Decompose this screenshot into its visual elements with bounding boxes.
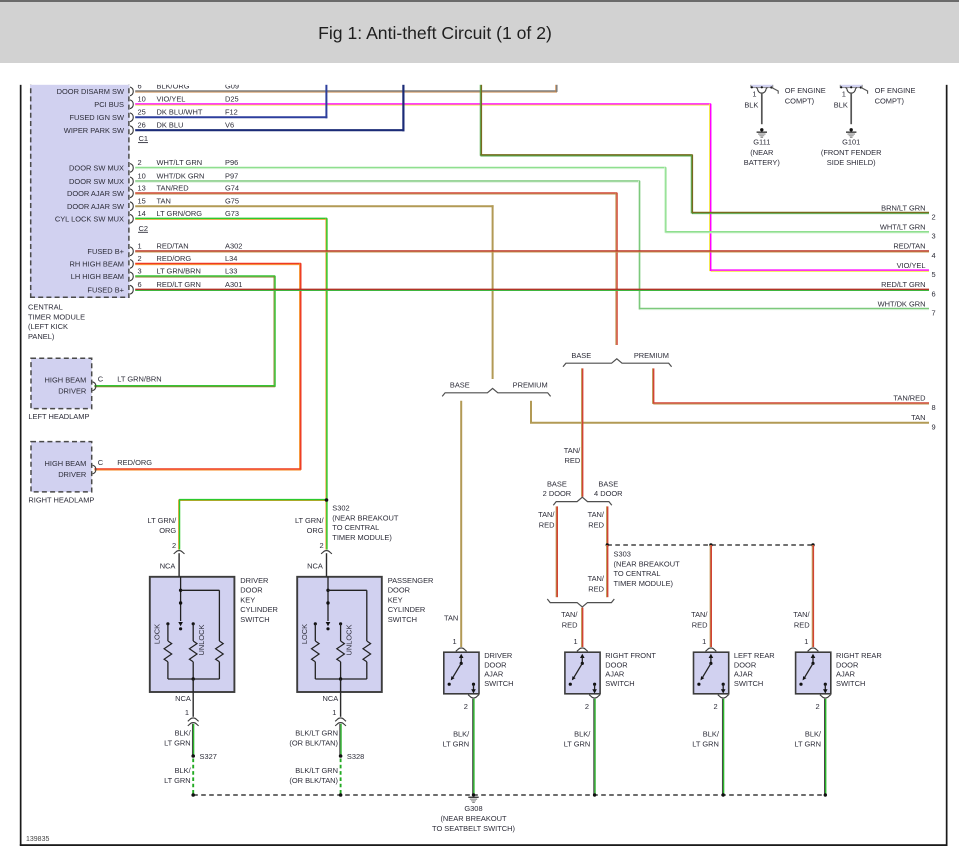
- svg-text:ORG: ORG: [159, 526, 176, 535]
- svg-text:8: 8: [932, 403, 936, 412]
- svg-text:WHT/DK GRN: WHT/DK GRN: [157, 172, 205, 181]
- svg-text:BLK/LT GRN: BLK/LT GRN: [295, 766, 338, 775]
- svg-text:L33: L33: [225, 267, 237, 276]
- svg-text:CENTRAL: CENTRAL: [28, 303, 63, 312]
- svg-text:A301: A301: [225, 280, 242, 289]
- svg-text:DOOR: DOOR: [836, 660, 859, 669]
- svg-text:NCA: NCA: [307, 562, 323, 571]
- svg-text:UNLOCK: UNLOCK: [197, 624, 206, 655]
- svg-text:G308: G308: [464, 804, 482, 813]
- svg-text:P97: P97: [225, 172, 238, 181]
- svg-text:2: 2: [932, 213, 936, 222]
- svg-text:SIDE SHIELD): SIDE SHIELD): [827, 158, 876, 167]
- svg-text:LH HIGH BEAM: LH HIGH BEAM: [71, 272, 124, 281]
- svg-text:TIMER MODULE: TIMER MODULE: [28, 313, 85, 322]
- svg-text:TO SEATBELT SWITCH): TO SEATBELT SWITCH): [432, 824, 515, 833]
- svg-text:BLK: BLK: [744, 101, 758, 110]
- svg-text:1: 1: [574, 637, 578, 646]
- svg-text:(OR BLK/TAN): (OR BLK/TAN): [289, 739, 338, 748]
- svg-text:DRIVER: DRIVER: [240, 576, 269, 585]
- svg-text:CYLINDER: CYLINDER: [240, 605, 278, 614]
- svg-text:DRIVER: DRIVER: [484, 651, 513, 660]
- svg-text:LT GRN/ORG: LT GRN/ORG: [157, 209, 203, 218]
- svg-text:2: 2: [816, 702, 820, 711]
- svg-text:BASE: BASE: [547, 479, 567, 488]
- svg-text:LEFT REAR: LEFT REAR: [734, 651, 775, 660]
- svg-text:V6: V6: [225, 121, 234, 130]
- svg-text:1: 1: [752, 90, 756, 99]
- svg-text:1: 1: [332, 708, 336, 717]
- svg-text:(NEAR BREAKOUT: (NEAR BREAKOUT: [440, 814, 507, 823]
- svg-text:1: 1: [842, 90, 846, 99]
- svg-text:1: 1: [452, 637, 456, 646]
- svg-text:9: 9: [932, 422, 936, 431]
- svg-text:TO CENTRAL: TO CENTRAL: [332, 523, 379, 532]
- svg-text:2: 2: [585, 702, 589, 711]
- svg-text:26: 26: [138, 121, 146, 130]
- svg-text:TAN: TAN: [444, 614, 458, 623]
- svg-text:S327: S327: [200, 752, 217, 761]
- svg-text:SWITCH: SWITCH: [388, 615, 417, 624]
- svg-text:CYL LOCK SW MUX: CYL LOCK SW MUX: [55, 214, 124, 223]
- svg-text:RED: RED: [539, 520, 555, 529]
- svg-text:AJAR: AJAR: [836, 670, 856, 679]
- svg-text:2: 2: [464, 702, 468, 711]
- svg-text:AJAR: AJAR: [605, 670, 625, 679]
- svg-text:25: 25: [138, 108, 146, 117]
- svg-text:RED/LT GRN: RED/LT GRN: [881, 280, 925, 289]
- svg-text:RIGHT FRONT: RIGHT FRONT: [605, 651, 656, 660]
- svg-text:(NEAR BREAKOUT: (NEAR BREAKOUT: [332, 513, 399, 522]
- svg-text:DRIVER: DRIVER: [58, 470, 87, 479]
- svg-text:L34: L34: [225, 254, 237, 263]
- svg-text:(OR BLK/TAN): (OR BLK/TAN): [289, 776, 338, 785]
- svg-text:DOOR SW MUX: DOOR SW MUX: [69, 177, 124, 186]
- svg-text:DOOR: DOOR: [484, 660, 507, 669]
- svg-text:NCA: NCA: [160, 562, 176, 571]
- svg-text:CYLINDER: CYLINDER: [388, 605, 426, 614]
- svg-text:G101: G101: [842, 138, 860, 147]
- svg-text:RED: RED: [794, 620, 810, 629]
- svg-text:P96: P96: [225, 158, 238, 167]
- svg-text:13: 13: [138, 184, 146, 193]
- svg-text:4: 4: [932, 251, 936, 260]
- svg-text:SWITCH: SWITCH: [605, 679, 634, 688]
- svg-text:BLK/: BLK/: [453, 730, 470, 739]
- svg-text:TAN/: TAN/: [588, 510, 605, 519]
- svg-text:TAN/: TAN/: [561, 610, 578, 619]
- svg-text:LT GRN: LT GRN: [794, 740, 821, 749]
- svg-text:DOOR: DOOR: [605, 660, 628, 669]
- svg-text:PASSENGER: PASSENGER: [388, 576, 434, 585]
- svg-text:RED/TAN: RED/TAN: [157, 242, 189, 251]
- svg-text:DOOR DISARM SW: DOOR DISARM SW: [57, 87, 124, 96]
- svg-text:G73: G73: [225, 209, 239, 218]
- svg-text:TO CENTRAL: TO CENTRAL: [614, 569, 661, 578]
- svg-text:(NEAR: (NEAR: [750, 148, 774, 157]
- svg-text:1: 1: [138, 242, 142, 251]
- svg-text:2: 2: [138, 158, 142, 167]
- svg-text:S303: S303: [614, 550, 631, 559]
- svg-text:SWITCH: SWITCH: [836, 679, 865, 688]
- svg-text:KEY: KEY: [240, 595, 255, 604]
- svg-text:4 DOOR: 4 DOOR: [594, 489, 623, 498]
- svg-text:TAN/: TAN/: [588, 574, 605, 583]
- svg-text:C: C: [98, 375, 104, 384]
- svg-text:LOCK: LOCK: [300, 624, 309, 644]
- svg-text:LT GRN: LT GRN: [692, 740, 719, 749]
- svg-text:TAN: TAN: [911, 413, 925, 422]
- svg-text:RED: RED: [692, 620, 708, 629]
- svg-text:NCA: NCA: [175, 694, 191, 703]
- svg-text:DK BLU: DK BLU: [157, 121, 184, 130]
- svg-text:LEFT HEADLAMP: LEFT HEADLAMP: [28, 412, 89, 421]
- svg-text:7: 7: [932, 309, 936, 318]
- svg-text:AJAR: AJAR: [734, 670, 754, 679]
- svg-text:SWITCH: SWITCH: [734, 679, 763, 688]
- svg-text:RIGHT HEADLAMP: RIGHT HEADLAMP: [28, 495, 94, 504]
- svg-text:G75: G75: [225, 197, 239, 206]
- svg-text:LT GRN: LT GRN: [564, 740, 591, 749]
- svg-text:BASE: BASE: [450, 380, 470, 389]
- svg-text:1: 1: [702, 637, 706, 646]
- svg-text:(LEFT KICK: (LEFT KICK: [28, 322, 68, 331]
- svg-text:BLK/: BLK/: [574, 730, 591, 739]
- svg-text:D25: D25: [225, 95, 239, 104]
- svg-text:C2: C2: [139, 224, 149, 233]
- svg-text:RED/TAN: RED/TAN: [893, 242, 925, 251]
- svg-text:BLK/: BLK/: [703, 730, 720, 739]
- svg-text:BLK/: BLK/: [175, 766, 192, 775]
- svg-text:10: 10: [138, 172, 146, 181]
- svg-text:S328: S328: [347, 752, 364, 761]
- svg-text:G111: G111: [753, 138, 770, 147]
- svg-text:LT GRN/: LT GRN/: [148, 516, 178, 525]
- svg-text:TAN: TAN: [157, 197, 171, 206]
- svg-text:TAN/: TAN/: [564, 446, 581, 455]
- svg-text:S302: S302: [332, 504, 349, 513]
- svg-text:BASE: BASE: [598, 479, 618, 488]
- svg-text:DRIVER: DRIVER: [58, 387, 87, 396]
- svg-text:A302: A302: [225, 242, 242, 251]
- svg-text:6: 6: [932, 289, 936, 298]
- svg-text:HIGH BEAM: HIGH BEAM: [45, 376, 87, 385]
- svg-text:14: 14: [138, 209, 146, 218]
- svg-text:SWITCH: SWITCH: [484, 679, 513, 688]
- svg-text:RIGHT REAR: RIGHT REAR: [836, 651, 882, 660]
- svg-text:RED: RED: [588, 584, 604, 593]
- svg-text:C: C: [98, 458, 104, 467]
- svg-text:2: 2: [138, 254, 142, 263]
- svg-text:C1: C1: [139, 134, 149, 143]
- svg-text:PREMIUM: PREMIUM: [634, 351, 669, 360]
- svg-text:PREMIUM: PREMIUM: [513, 380, 548, 389]
- svg-text:TAN/: TAN/: [691, 610, 708, 619]
- svg-text:G74: G74: [225, 184, 239, 193]
- svg-text:15: 15: [138, 197, 146, 206]
- svg-text:3: 3: [932, 232, 936, 241]
- svg-text:F12: F12: [225, 108, 238, 117]
- svg-text:TAN/RED: TAN/RED: [893, 394, 926, 403]
- svg-text:LT GRN: LT GRN: [164, 739, 191, 748]
- svg-text:(NEAR BREAKOUT: (NEAR BREAKOUT: [614, 559, 681, 568]
- svg-text:LT GRN/BRN: LT GRN/BRN: [157, 267, 201, 276]
- svg-text:VIO/YEL: VIO/YEL: [157, 95, 186, 104]
- svg-text:1: 1: [804, 637, 808, 646]
- svg-text:DOOR AJAR SW: DOOR AJAR SW: [67, 189, 124, 198]
- svg-text:OF ENGINE: OF ENGINE: [875, 86, 916, 95]
- svg-text:TIMER MODULE): TIMER MODULE): [614, 579, 674, 588]
- svg-text:BATTERY): BATTERY): [744, 158, 781, 167]
- svg-text:PANEL): PANEL): [28, 332, 55, 341]
- svg-text:2: 2: [319, 541, 323, 550]
- svg-text:DOOR: DOOR: [734, 660, 757, 669]
- svg-text:KEY: KEY: [388, 595, 403, 604]
- svg-text:BLK/: BLK/: [805, 730, 822, 739]
- svg-text:LOCK: LOCK: [152, 624, 161, 644]
- svg-text:LT GRN: LT GRN: [164, 776, 191, 785]
- svg-text:TAN/RED: TAN/RED: [157, 184, 190, 193]
- svg-text:BLK/LT GRN: BLK/LT GRN: [295, 729, 338, 738]
- svg-text:WHT/DK GRN: WHT/DK GRN: [878, 299, 926, 308]
- svg-text:RED: RED: [564, 456, 580, 465]
- svg-text:DOOR: DOOR: [240, 586, 263, 595]
- svg-text:BLK: BLK: [834, 101, 848, 110]
- svg-text:BRN/LT GRN: BRN/LT GRN: [881, 203, 925, 212]
- svg-text:LT GRN/BRN: LT GRN/BRN: [117, 375, 161, 384]
- svg-text:TAN/: TAN/: [538, 510, 555, 519]
- svg-text:2: 2: [713, 702, 717, 711]
- svg-text:WHT/LT GRN: WHT/LT GRN: [157, 158, 203, 167]
- svg-text:1: 1: [185, 708, 189, 717]
- svg-text:HIGH BEAM: HIGH BEAM: [45, 459, 87, 468]
- svg-text:UNLOCK: UNLOCK: [345, 624, 354, 655]
- svg-text:(FRONT FENDER: (FRONT FENDER: [821, 148, 882, 157]
- svg-text:DOOR AJAR SW: DOOR AJAR SW: [67, 202, 124, 211]
- svg-text:FUSED IGN SW: FUSED IGN SW: [69, 113, 124, 122]
- svg-text:DK BLU/WHT: DK BLU/WHT: [157, 108, 203, 117]
- svg-text:FUSED B+: FUSED B+: [87, 285, 124, 294]
- svg-text:WHT/LT GRN: WHT/LT GRN: [880, 223, 926, 232]
- svg-text:COMPT): COMPT): [785, 96, 815, 105]
- svg-text:BASE: BASE: [571, 351, 591, 360]
- svg-text:NCA: NCA: [322, 694, 338, 703]
- svg-text:RED/LT GRN: RED/LT GRN: [157, 280, 201, 289]
- svg-text:COMPT): COMPT): [875, 96, 905, 105]
- svg-text:OF ENGINE: OF ENGINE: [785, 86, 826, 95]
- svg-text:5: 5: [932, 270, 936, 279]
- svg-text:RED: RED: [588, 520, 604, 529]
- svg-text:RED: RED: [562, 620, 578, 629]
- svg-text:RED/ORG: RED/ORG: [157, 254, 192, 263]
- svg-text:VIO/YEL: VIO/YEL: [897, 261, 926, 270]
- svg-text:LT GRN: LT GRN: [443, 740, 470, 749]
- svg-text:WIPER PARK SW: WIPER PARK SW: [64, 126, 124, 135]
- svg-text:ORG: ORG: [307, 526, 324, 535]
- svg-text:2: 2: [172, 541, 176, 550]
- svg-text:PCI BUS: PCI BUS: [94, 100, 124, 109]
- svg-text:DOOR: DOOR: [388, 586, 411, 595]
- svg-text:10: 10: [138, 95, 146, 104]
- svg-text:LT GRN/: LT GRN/: [295, 516, 325, 525]
- svg-text:TAN/: TAN/: [793, 610, 810, 619]
- svg-text:BLK/: BLK/: [175, 729, 192, 738]
- svg-text:2 DOOR: 2 DOOR: [543, 489, 572, 498]
- svg-text:TIMER MODULE): TIMER MODULE): [332, 533, 392, 542]
- svg-text:FUSED B+: FUSED B+: [87, 247, 124, 256]
- svg-text:RED/ORG: RED/ORG: [117, 458, 152, 467]
- svg-text:DOOR SW MUX: DOOR SW MUX: [69, 164, 124, 173]
- svg-text:3: 3: [138, 267, 142, 276]
- svg-text:AJAR: AJAR: [484, 670, 504, 679]
- svg-text:RH HIGH BEAM: RH HIGH BEAM: [69, 260, 124, 269]
- svg-text:6: 6: [138, 280, 142, 289]
- svg-text:139835: 139835: [26, 836, 49, 843]
- svg-text:SWITCH: SWITCH: [240, 615, 269, 624]
